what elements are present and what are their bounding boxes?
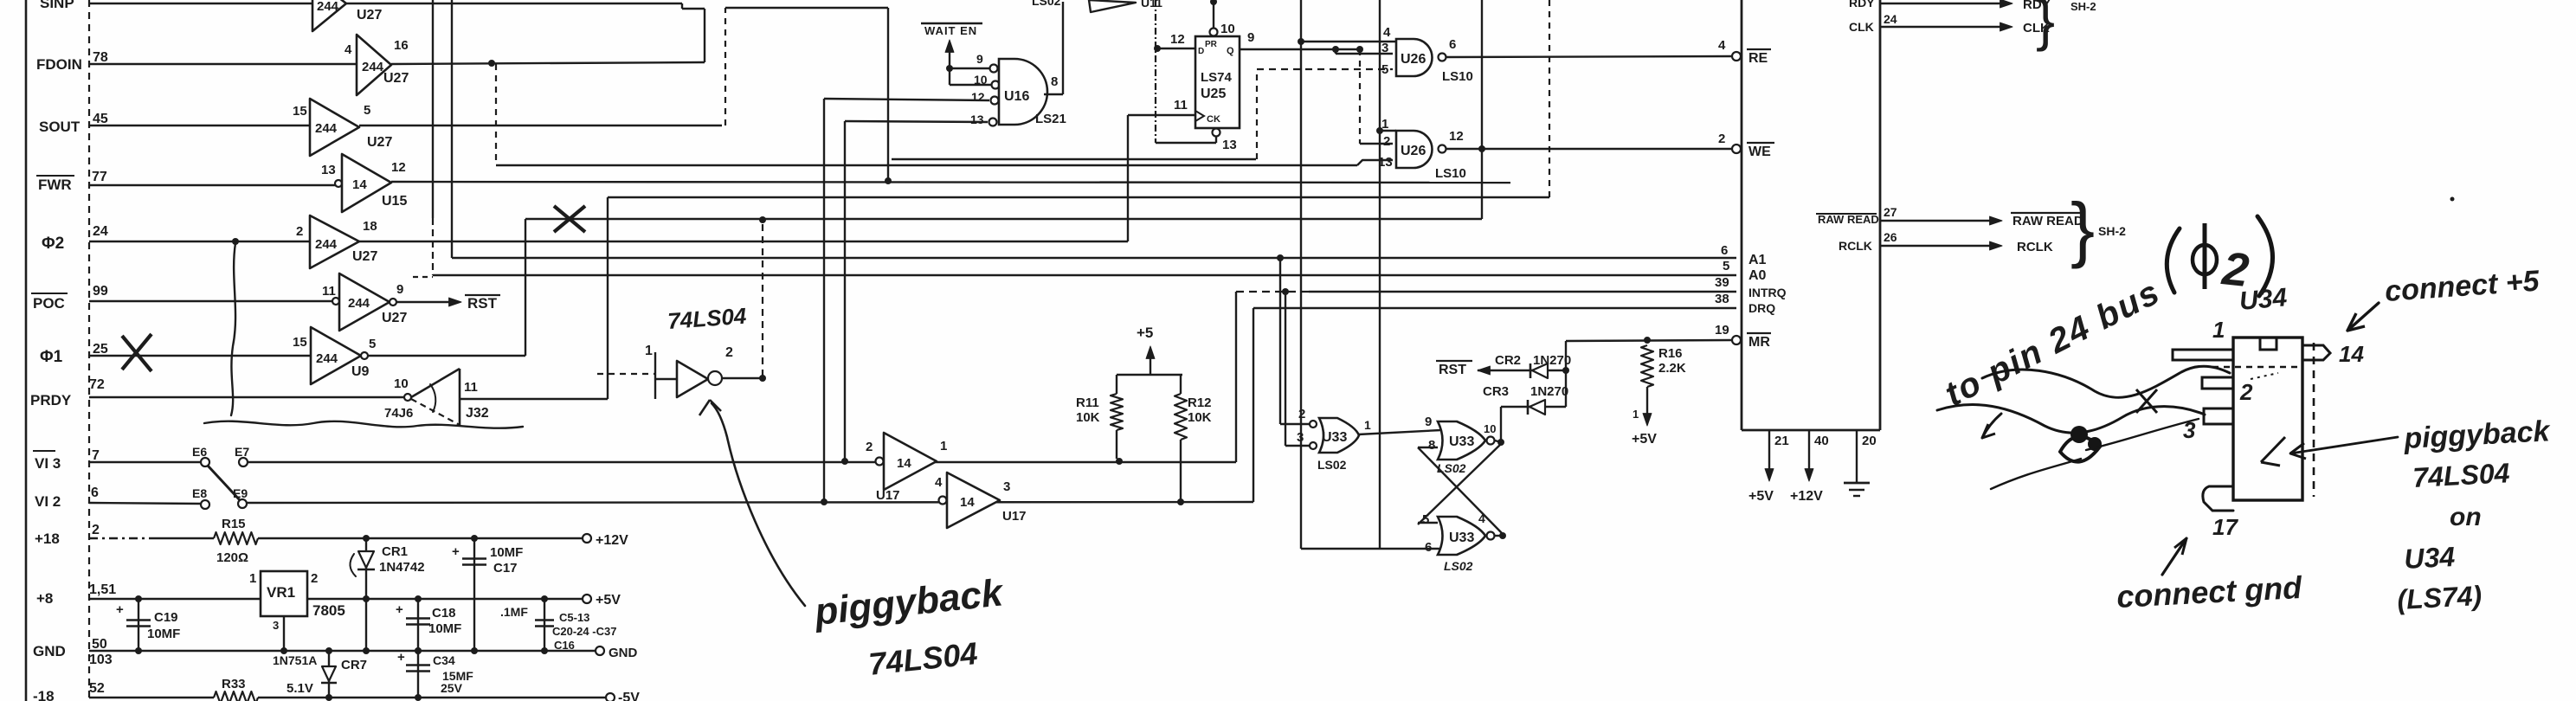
svg-text:4: 4 — [345, 42, 352, 57]
svg-text:U11: U11 — [1141, 0, 1162, 10]
svg-text:-18: -18 — [33, 688, 55, 701]
svg-text:244: 244 — [316, 351, 338, 366]
svg-text:Φ2: Φ2 — [42, 235, 64, 253]
svg-text:26: 26 — [1884, 230, 1897, 244]
svg-text:Q: Q — [1227, 46, 1234, 56]
svg-text:99: 99 — [93, 284, 108, 299]
svg-text:244: 244 — [315, 121, 338, 136]
svg-text:C34: C34 — [433, 653, 455, 667]
svg-text:38: 38 — [1715, 292, 1729, 306]
svg-text:1: 1 — [940, 439, 947, 453]
svg-text:(LS74): (LS74) — [2396, 580, 2483, 615]
svg-text:VR1: VR1 — [267, 584, 295, 601]
svg-text:9: 9 — [1247, 30, 1254, 45]
svg-text:1N4742: 1N4742 — [379, 560, 425, 575]
svg-text:+5V: +5V — [1748, 489, 1774, 504]
svg-text:CR2: CR2 — [1495, 353, 1521, 368]
svg-text:2: 2 — [866, 440, 873, 454]
svg-text:Φ1: Φ1 — [40, 348, 63, 366]
svg-text:LS74: LS74 — [1201, 70, 1233, 85]
svg-text:2: 2 — [2239, 379, 2253, 405]
svg-text:2: 2 — [1718, 132, 1725, 146]
svg-text:2: 2 — [92, 523, 100, 537]
svg-text:52: 52 — [89, 681, 105, 696]
svg-text:+12V: +12V — [596, 533, 628, 548]
svg-text:U27: U27 — [357, 8, 382, 23]
svg-text:A0: A0 — [1748, 268, 1767, 283]
svg-text:GND: GND — [33, 643, 66, 659]
svg-text:6: 6 — [1449, 37, 1456, 52]
svg-text:WAIT EN: WAIT EN — [924, 24, 977, 37]
svg-text:45: 45 — [93, 112, 108, 126]
svg-text:50: 50 — [92, 637, 107, 652]
svg-text:39: 39 — [1715, 275, 1729, 290]
svg-text:}: } — [2036, 0, 2055, 52]
svg-text:19: 19 — [1715, 323, 1729, 338]
svg-text:VI 2: VI 2 — [35, 493, 61, 510]
svg-text:C17: C17 — [493, 561, 518, 576]
svg-text:3: 3 — [1381, 41, 1388, 55]
svg-text:15: 15 — [293, 104, 307, 119]
svg-text:10K: 10K — [1188, 410, 1212, 425]
svg-text:5: 5 — [1381, 62, 1388, 77]
svg-text:12: 12 — [971, 90, 985, 104]
svg-text:C19: C19 — [154, 610, 178, 625]
svg-text:RAW READ: RAW READ — [1818, 213, 1879, 226]
svg-text:7: 7 — [92, 448, 100, 463]
svg-text:9: 9 — [396, 282, 403, 297]
svg-text:14: 14 — [2339, 341, 2364, 367]
svg-text:LS02: LS02 — [1032, 0, 1061, 8]
svg-text:78: 78 — [93, 50, 108, 65]
svg-text:D: D — [1198, 47, 1204, 56]
svg-text:27: 27 — [1884, 205, 1897, 219]
svg-text:+: + — [116, 602, 124, 617]
svg-text:74LS04: 74LS04 — [667, 303, 747, 334]
svg-text:U15: U15 — [382, 194, 407, 209]
svg-text:72: 72 — [89, 377, 105, 392]
svg-text:3: 3 — [1003, 479, 1010, 494]
svg-text:244: 244 — [315, 237, 338, 252]
svg-text:-5V: -5V — [618, 691, 640, 701]
svg-text:10K: 10K — [1076, 410, 1100, 425]
svg-text:2: 2 — [1298, 407, 1305, 421]
svg-text:+18: +18 — [35, 531, 60, 547]
svg-text:7805: 7805 — [312, 602, 345, 619]
svg-text:2: 2 — [1383, 134, 1390, 149]
svg-text:6: 6 — [1721, 243, 1728, 258]
svg-text:14: 14 — [960, 495, 975, 510]
svg-text:FDOIN: FDOIN — [36, 56, 82, 73]
svg-text:10: 10 — [394, 376, 409, 391]
svg-text:LS10: LS10 — [1442, 69, 1473, 84]
svg-text:LS02: LS02 — [1317, 458, 1347, 472]
svg-text:U17: U17 — [876, 488, 900, 503]
svg-text:10: 10 — [1484, 422, 1496, 435]
svg-text:14: 14 — [897, 456, 911, 471]
svg-text:+8: +8 — [36, 590, 53, 607]
svg-text:10MF: 10MF — [147, 627, 180, 641]
svg-text:RST: RST — [467, 295, 498, 312]
svg-text:1: 1 — [1381, 117, 1388, 132]
svg-text:24: 24 — [1884, 12, 1897, 26]
svg-text:E9: E9 — [233, 486, 248, 500]
svg-text:15: 15 — [293, 335, 307, 350]
svg-text:12: 12 — [1449, 129, 1464, 144]
svg-text:U26: U26 — [1401, 144, 1426, 158]
svg-text:CR3: CR3 — [1483, 384, 1509, 399]
svg-text:2: 2 — [725, 345, 733, 360]
svg-text:U34: U34 — [2238, 283, 2289, 316]
svg-text:13: 13 — [1222, 138, 1237, 152]
svg-text:18: 18 — [363, 219, 377, 234]
svg-text:1: 1 — [645, 344, 653, 358]
svg-text:CR1: CR1 — [382, 544, 408, 559]
svg-text:120Ω: 120Ω — [216, 550, 248, 565]
svg-text:RCLK: RCLK — [1839, 239, 1872, 253]
svg-text:2.2K: 2.2K — [1658, 361, 1686, 376]
svg-text:PRDY: PRDY — [30, 392, 72, 408]
svg-text:SH-2: SH-2 — [2070, 0, 2096, 13]
svg-text:74J6: 74J6 — [384, 406, 413, 421]
svg-text:R11: R11 — [1076, 396, 1099, 410]
svg-text:CR7: CR7 — [341, 658, 367, 672]
svg-text:U27: U27 — [382, 311, 407, 325]
svg-text:R12: R12 — [1188, 396, 1212, 410]
svg-text:+: + — [452, 544, 460, 559]
svg-text:2: 2 — [296, 224, 303, 239]
svg-text:SH-2: SH-2 — [2098, 224, 2126, 238]
svg-text:25V: 25V — [441, 681, 463, 695]
svg-text:8: 8 — [1428, 438, 1435, 453]
svg-text:E7: E7 — [235, 445, 249, 459]
svg-text:CLK: CLK — [1849, 20, 1874, 34]
svg-text:10MF: 10MF — [428, 621, 461, 636]
svg-text:U34: U34 — [2403, 541, 2456, 575]
svg-text:1: 1 — [1364, 418, 1371, 432]
svg-text:U9: U9 — [351, 364, 370, 379]
svg-text:SINP: SINP — [40, 0, 74, 11]
svg-text:244: 244 — [317, 0, 339, 14]
svg-text:RE: RE — [1748, 51, 1768, 66]
svg-text:CK: CK — [1207, 114, 1220, 125]
svg-text:+5: +5 — [1137, 325, 1153, 341]
svg-text:+5V: +5V — [596, 593, 621, 608]
svg-text:U26: U26 — [1401, 52, 1426, 67]
svg-text:103: 103 — [89, 653, 113, 667]
svg-text:LS10: LS10 — [1435, 166, 1466, 181]
svg-text:12: 12 — [1170, 32, 1185, 47]
svg-text:on: on — [2450, 503, 2482, 531]
svg-text:74LS04: 74LS04 — [2412, 457, 2510, 493]
svg-text:E8: E8 — [192, 486, 207, 500]
svg-text:RST: RST — [1439, 363, 1466, 377]
svg-text:40: 40 — [1814, 434, 1829, 448]
svg-text:LS21: LS21 — [1035, 112, 1066, 126]
svg-text:4: 4 — [935, 475, 943, 490]
svg-text:PR: PR — [1205, 40, 1218, 49]
svg-text:25: 25 — [93, 342, 108, 357]
svg-text:14: 14 — [352, 177, 367, 192]
svg-text:9: 9 — [1425, 415, 1432, 429]
svg-text:C20-24 -C37: C20-24 -C37 — [552, 625, 616, 638]
svg-text:2: 2 — [311, 571, 318, 586]
svg-text:10MF: 10MF — [490, 545, 523, 560]
svg-text:SOUT: SOUT — [39, 119, 80, 135]
svg-text:U17: U17 — [1002, 509, 1027, 524]
svg-text:16: 16 — [394, 38, 409, 53]
svg-text:3: 3 — [1297, 430, 1304, 445]
svg-text:9: 9 — [976, 52, 983, 66]
svg-text:11: 11 — [1174, 98, 1188, 113]
svg-text:13: 13 — [321, 163, 336, 177]
svg-text:6: 6 — [1425, 540, 1432, 555]
svg-text:11: 11 — [464, 380, 478, 395]
svg-text:U16: U16 — [1004, 89, 1029, 104]
svg-text:3: 3 — [273, 619, 279, 632]
svg-text:+5V: +5V — [1632, 432, 1657, 447]
svg-text:J32: J32 — [466, 406, 489, 421]
svg-text:U27: U27 — [383, 71, 409, 86]
svg-text:C18: C18 — [432, 606, 456, 621]
svg-text:1N751A: 1N751A — [273, 653, 317, 667]
svg-text:R15: R15 — [222, 517, 246, 531]
svg-text:RCLK: RCLK — [2017, 240, 2053, 254]
svg-text:FWR: FWR — [38, 177, 72, 193]
svg-text:11: 11 — [322, 284, 336, 299]
svg-text:VI 3: VI 3 — [35, 455, 61, 472]
svg-text:77: 77 — [92, 170, 107, 184]
svg-text:U27: U27 — [367, 135, 392, 150]
svg-text:A1: A1 — [1748, 253, 1767, 267]
svg-text:12: 12 — [391, 160, 406, 175]
svg-text:INTRQ: INTRQ — [1748, 286, 1787, 299]
svg-text:5: 5 — [364, 103, 370, 118]
svg-text:13: 13 — [970, 113, 984, 126]
svg-text:RDY: RDY — [1849, 0, 1875, 10]
svg-text:U27: U27 — [352, 249, 377, 264]
svg-text:MR: MR — [1748, 335, 1770, 350]
svg-text:1N270: 1N270 — [1530, 384, 1568, 399]
svg-text:LS02: LS02 — [1437, 461, 1466, 475]
svg-text:.1MF: .1MF — [500, 605, 528, 619]
svg-text:U33: U33 — [1322, 430, 1347, 445]
svg-text:+: + — [396, 602, 403, 617]
svg-text:U33: U33 — [1449, 434, 1474, 449]
svg-text:R16: R16 — [1658, 346, 1683, 361]
svg-text:13: 13 — [1378, 155, 1393, 170]
svg-text:POC: POC — [33, 295, 65, 312]
svg-text:6: 6 — [91, 486, 99, 500]
svg-text:1N270: 1N270 — [1533, 353, 1571, 368]
svg-text:5: 5 — [369, 337, 376, 351]
svg-text:5: 5 — [1723, 259, 1729, 273]
svg-text:WE: WE — [1748, 145, 1771, 159]
svg-text:10: 10 — [1220, 22, 1235, 36]
svg-text:244: 244 — [362, 60, 384, 74]
svg-text:4: 4 — [1718, 38, 1726, 53]
svg-text:20: 20 — [1862, 434, 1877, 448]
svg-text:1: 1 — [2212, 317, 2225, 343]
svg-text:1: 1 — [1633, 408, 1639, 421]
svg-text:1,51: 1,51 — [89, 582, 116, 597]
svg-text:8: 8 — [1051, 74, 1058, 89]
svg-text:U25: U25 — [1201, 87, 1226, 101]
svg-text:C5-13: C5-13 — [559, 611, 589, 624]
svg-text:+12V: +12V — [1790, 489, 1823, 504]
svg-text:17: 17 — [2212, 514, 2238, 540]
svg-text:R33: R33 — [222, 677, 246, 691]
svg-text:5.1V: 5.1V — [287, 681, 313, 696]
svg-text:LS02: LS02 — [1444, 559, 1473, 573]
svg-text:DRQ: DRQ — [1748, 301, 1775, 315]
svg-text:1: 1 — [249, 571, 256, 586]
svg-text:244: 244 — [348, 296, 370, 311]
svg-text:GND: GND — [609, 646, 638, 660]
svg-text:4: 4 — [1383, 25, 1391, 40]
svg-text:+: + — [397, 650, 405, 665]
svg-text:24: 24 — [93, 224, 108, 239]
svg-text:10: 10 — [974, 73, 988, 87]
svg-text:U33: U33 — [1449, 531, 1474, 545]
svg-text:}: } — [2070, 188, 2095, 269]
svg-text:21: 21 — [1774, 434, 1789, 448]
svg-text:E6: E6 — [192, 445, 207, 459]
